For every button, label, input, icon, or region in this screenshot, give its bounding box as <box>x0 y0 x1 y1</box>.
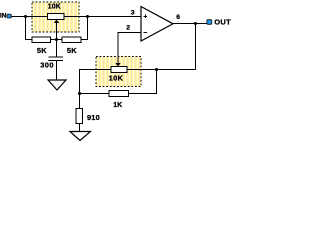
svg-text:10K: 10K <box>48 3 61 10</box>
wire: op-amp output to OUT pad <box>173 23 207 25</box>
svg-text:3: 3 <box>131 10 135 17</box>
svg-text:910: 910 <box>87 113 100 122</box>
svg-text:IN: IN <box>0 12 7 19</box>
op-amp U1 body <box>141 7 173 42</box>
svg-text:6: 6 <box>176 14 180 21</box>
potentiometer 10K (feedback) body <box>111 67 127 73</box>
resistor 5K right body <box>62 37 81 43</box>
ground (below 910) <box>70 132 91 141</box>
highlight box (top 10K pot region) <box>32 2 79 32</box>
node C junction (feedback/1K) <box>155 68 158 71</box>
svg-text:1K: 1K <box>113 102 122 109</box>
wire: node D down to 910 <box>79 94 81 109</box>
OUT pad <box>207 20 212 25</box>
op-amp minus sign <box>144 32 147 34</box>
wire: input rail IN to op-amp pin 3 <box>11 16 141 18</box>
wire: output node down to feedback <box>195 24 197 70</box>
wire: 5K midpoint down to capacitor <box>56 40 58 58</box>
svg-text:5K: 5K <box>37 46 47 55</box>
svg-text:300: 300 <box>40 60 54 69</box>
wire: capacitor to ground <box>56 61 58 81</box>
IN pad <box>7 14 11 18</box>
wire: feedback pot right terminal to output branch <box>127 69 196 71</box>
node A junction <box>24 15 27 18</box>
potentiometer 10K (top) wiper arrow <box>54 20 59 24</box>
wire: feedback pot left terminal down to 1K node <box>80 70 112 94</box>
node output junction <box>194 22 197 25</box>
wire: node C down to 1K right terminal <box>129 70 157 94</box>
op-amp plus sign <box>144 15 147 19</box>
wire: op-amp pin 2 lead <box>118 33 141 64</box>
node wiper/5K junction <box>55 38 58 41</box>
wire: between 5K resistors <box>51 39 63 41</box>
wire: 910 to ground <box>79 124 81 132</box>
potentiometer 10K (top) body <box>48 14 65 20</box>
resistor 5K left body <box>32 37 51 43</box>
capacitor C1 300 plates <box>49 57 64 61</box>
resistor 1K body <box>109 91 129 97</box>
resistor 910 body <box>76 109 83 124</box>
svg-text:OUT: OUT <box>214 18 231 27</box>
wire: pot wiper down to 5K midpoint <box>56 22 58 40</box>
node B junction <box>86 15 89 18</box>
svg-text:10K: 10K <box>109 74 124 83</box>
wire: 1K left terminal to node D <box>80 93 110 95</box>
svg-text:5K: 5K <box>67 46 77 55</box>
highlight box (feedback 10K pot region) <box>96 57 141 87</box>
wire: left branch down from node A to left 5K <box>26 17 33 40</box>
node D junction (1K/910) <box>78 92 81 95</box>
svg-text:2: 2 <box>126 24 130 31</box>
wire: right 5K up to node B <box>81 17 88 40</box>
ground (below capacitor) <box>48 80 66 90</box>
potentiometer 10K (feedback) wiper arrow <box>115 63 120 67</box>
